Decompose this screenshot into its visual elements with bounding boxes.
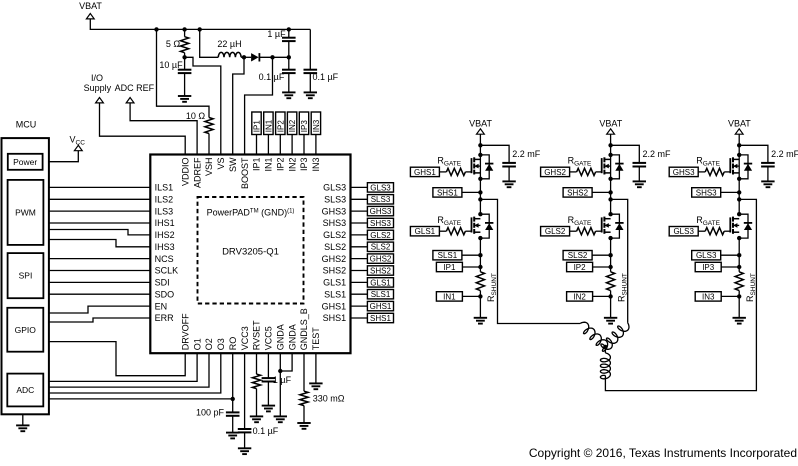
wire I/O supply to VDDIO pin — [100, 103, 186, 155]
svg-text:GHS2: GHS2 — [370, 255, 392, 264]
ground for 10uF — [178, 95, 191, 97]
svg-text:0.1 µF: 0.1 µF — [253, 426, 279, 436]
svg-text:GNDA: GNDA — [287, 324, 297, 350]
capacitor 2.2 mF bridge 2 — [611, 145, 640, 163]
svg-text:SW: SW — [228, 157, 238, 172]
svg-text:SHS1: SHS1 — [370, 314, 391, 323]
wire VBAT to half-bridge 2 — [610, 134, 612, 155]
svg-text:0.1 µF: 0.1 µF — [259, 72, 285, 82]
svg-text:SHS3: SHS3 — [696, 188, 717, 197]
svg-text:IN2: IN2 — [287, 158, 297, 172]
wire shunt to ground 3 — [738, 291, 740, 318]
svg-text:VBAT: VBAT — [469, 119, 492, 129]
PowerPAD dashed region — [198, 197, 304, 304]
transistor Q3L low-side FET — [729, 217, 731, 232]
capacitor 1 uF — [288, 29, 290, 37]
svg-text:Copyright © 2016, Texas Instru: Copyright © 2016, Texas Instruments Inco… — [529, 446, 797, 460]
svg-text:ADREF: ADREF — [192, 157, 202, 188]
wire VCC to MCU Power — [43, 151, 79, 162]
svg-text:Power: Power — [13, 157, 37, 167]
svg-text:IN1: IN1 — [443, 292, 456, 301]
node 5-ohm/10uF junction — [182, 55, 186, 59]
svg-text:O2: O2 — [204, 338, 214, 350]
net label GLS3 — [351, 186, 368, 188]
svg-text:IP1: IP1 — [443, 263, 456, 272]
wire diode cathode node — [259, 56, 288, 58]
op-amp U1 DRV3205-Q1 body — [150, 155, 350, 354]
wire shunt to ground 2 — [610, 291, 612, 318]
svg-text:IP2: IP2 — [276, 120, 285, 133]
net label IP2 (top) — [276, 112, 285, 135]
svg-text:VBAT: VBAT — [728, 119, 751, 129]
svg-text:SLS1: SLS1 — [438, 251, 458, 260]
net label GLS1 — [351, 281, 368, 283]
wire ILS3 — [49, 210, 150, 212]
svg-text:IN3: IN3 — [702, 292, 715, 301]
net label GLS3 — [669, 227, 698, 236]
net label IP3 — [695, 262, 721, 271]
net label IP1 — [436, 262, 462, 271]
net label GHS2 — [351, 258, 368, 260]
net label GHS1 — [410, 167, 439, 176]
motor winding L3 — [604, 347, 606, 353]
net label SHS1 — [351, 317, 368, 319]
transistor Q1L low-side FET — [471, 217, 473, 232]
wire IHS2 — [49, 230, 150, 235]
svg-text:IN1: IN1 — [264, 119, 273, 132]
svg-text:GHS3: GHS3 — [673, 168, 695, 177]
svg-text:IHS3: IHS3 — [155, 242, 175, 252]
capacitor 2.2 mF bridge 3 — [739, 145, 768, 163]
transistor Q1H high-side FET — [471, 158, 473, 173]
svg-text:SHS2: SHS2 — [370, 266, 391, 275]
capacitor 100 pF — [232, 399, 234, 413]
svg-text:GLS1: GLS1 — [415, 227, 436, 236]
svg-text:GHS3: GHS3 — [322, 206, 347, 216]
net label SHS3 — [692, 188, 721, 197]
wire ILS2 — [49, 198, 150, 200]
node cap tap 2 — [608, 143, 612, 147]
svg-text:NCS: NCS — [155, 254, 174, 264]
wire NCS — [49, 258, 150, 260]
node GNDA junction — [278, 369, 282, 373]
MCU SPI box — [8, 253, 44, 298]
svg-text:2.2 mF: 2.2 mF — [771, 149, 798, 159]
svg-text:10 µF: 10 µF — [159, 60, 183, 70]
wire SDI — [49, 281, 150, 283]
net label SHS2 — [351, 270, 368, 272]
svg-text:SLS3: SLS3 — [371, 195, 391, 204]
svg-text:GLS3: GLS3 — [323, 183, 346, 193]
ground bridge 2 — [604, 317, 617, 319]
svg-text:RO: RO — [228, 337, 238, 351]
svg-text:ILS3: ILS3 — [155, 206, 174, 216]
svg-text:SHS3: SHS3 — [323, 218, 347, 228]
ground for 0.1uF boost — [282, 91, 295, 93]
net label SLS1 — [351, 293, 368, 295]
net label SLS3 — [351, 198, 368, 200]
capacitor 0.1 uF boost — [288, 57, 290, 69]
wire BOOST tap to BOOST pin — [245, 57, 273, 154]
ground for VCC5 cap — [262, 405, 275, 407]
net label IN1 (top) — [264, 112, 273, 135]
node cap junction — [287, 55, 291, 59]
svg-text:330 mΩ: 330 mΩ — [313, 393, 345, 403]
resistor 330 mOhm — [303, 353, 305, 391]
svg-text:SLS2: SLS2 — [568, 251, 588, 260]
svg-text:IP3: IP3 — [702, 263, 715, 272]
wire phase tap 3 — [738, 192, 740, 214]
wire shunt to ground 1 — [479, 291, 481, 318]
net label GLS1 — [410, 227, 439, 236]
svg-text:RVSET: RVSET — [252, 320, 262, 350]
svg-text:SLS2: SLS2 — [324, 242, 346, 252]
svg-text:GLS1: GLS1 — [370, 278, 391, 287]
wire O1 route — [49, 353, 197, 381]
svg-text:O3: O3 — [216, 338, 226, 350]
svg-text:22 µH: 22 µH — [217, 39, 241, 49]
resistor 10 Ohm — [205, 118, 213, 134]
svg-text:ILS2: ILS2 — [155, 195, 174, 205]
wire ADC REF to ADREF pin — [130, 103, 197, 155]
capacitor 1 uF VCC5 — [267, 353, 269, 378]
svg-text:VSH: VSH — [204, 158, 214, 177]
svg-text:SHS1: SHS1 — [323, 313, 347, 323]
rail drain-source 3H — [738, 155, 740, 193]
wire phase 3 to motor — [605, 199, 756, 390]
resistor RVSET — [256, 353, 258, 374]
svg-text:SLS3: SLS3 — [324, 195, 346, 205]
wire SW node to SW pin — [233, 57, 244, 154]
net label SHS2 — [563, 188, 592, 197]
svg-text:IN3: IN3 — [312, 119, 321, 132]
svg-text:IHS1: IHS1 — [155, 218, 175, 228]
transistor Q3H high-side FET — [729, 158, 731, 173]
resistor R_SHUNT 1 — [476, 272, 484, 291]
wire DRVOFF route — [49, 342, 185, 376]
net label SLS3 — [692, 251, 721, 260]
resistor R_SHUNT 2 — [607, 272, 615, 291]
svg-text:IP2: IP2 — [574, 263, 587, 272]
svg-text:GLS2: GLS2 — [370, 231, 391, 240]
svg-text:5 Ω: 5 Ω — [166, 39, 181, 49]
ground for VCC3 cap — [238, 447, 251, 449]
svg-text:TEST: TEST — [311, 327, 321, 351]
rail below low FET 3 — [738, 238, 740, 272]
net label IP3 (top) — [299, 112, 308, 135]
svg-text:10 Ω: 10 Ω — [186, 111, 206, 121]
svg-text:1 µF: 1 µF — [267, 29, 286, 39]
wire 10-ohm to VSH pin — [208, 134, 210, 155]
MCU GPIO box — [7, 308, 43, 352]
node VBAT-rail junctions — [154, 27, 158, 31]
ground for TEST — [315, 353, 317, 383]
node motor star point — [603, 345, 607, 349]
motor winding L2 — [601, 323, 629, 349]
svg-text:I/O: I/O — [91, 73, 103, 83]
svg-text:VCC3: VCC3 — [240, 326, 250, 350]
inductor 22 uH — [218, 52, 241, 57]
transistor Q2L low-side FET — [601, 217, 603, 232]
svg-text:GHS2: GHS2 — [322, 254, 347, 264]
wire RO route — [232, 353, 234, 399]
svg-text:MCU: MCU — [16, 120, 37, 130]
svg-text:GLS2: GLS2 — [545, 227, 566, 236]
svg-text:GLS1: GLS1 — [323, 278, 346, 288]
net label SHS3 — [351, 222, 368, 224]
net label GHS2 — [541, 167, 570, 176]
capacitor 0.1 uF VCC3 — [244, 353, 246, 429]
wire VBAT to 10-ohm — [157, 29, 210, 117]
ground MCU — [22, 414, 24, 425]
svg-text:SDO: SDO — [155, 289, 175, 299]
net label SLS2 — [563, 251, 592, 260]
svg-text:VDDIO: VDDIO — [180, 158, 190, 187]
svg-text:1 µF: 1 µF — [273, 375, 292, 385]
net label IP2 — [567, 262, 593, 271]
svg-text:SHS1: SHS1 — [437, 188, 458, 197]
svg-text:PWM: PWM — [15, 207, 36, 217]
node cap tap 3 — [737, 143, 741, 147]
svg-text:GNDA: GNDA — [276, 324, 286, 350]
ground bridge 1 — [474, 317, 487, 319]
svg-text:SPI: SPI — [19, 271, 33, 281]
rail below low FET 1 — [479, 238, 481, 272]
ground for 2.2mF 3 — [761, 180, 774, 182]
ground for 2.2mF 2 — [633, 180, 646, 182]
svg-text:VCC5: VCC5 — [264, 326, 274, 350]
ground for GNDLS_B — [297, 422, 310, 424]
svg-text:SDI: SDI — [155, 278, 170, 288]
wire GNDA1 — [279, 353, 281, 416]
net label IN2 (top) — [287, 112, 296, 135]
ground for 0.1uF rail — [304, 91, 317, 93]
diode boost — [251, 53, 259, 61]
resistor 5 Ohm — [184, 29, 186, 36]
net label IP1 (top) — [252, 112, 261, 135]
capacitor 2.2 mF bridge 1 — [480, 145, 509, 163]
svg-text:SHS3: SHS3 — [370, 219, 391, 228]
MCU PWM box — [8, 180, 44, 245]
ground for GNDA — [274, 415, 287, 417]
svg-text:SLS1: SLS1 — [371, 290, 391, 299]
net label GLS2 — [541, 227, 570, 236]
wire GNDA2 — [280, 353, 292, 371]
motor winding L1 — [580, 322, 607, 351]
capacitor 0.1 uF rail — [309, 29, 311, 69]
wire VBAT to half-bridge 3 — [738, 134, 740, 155]
MCU Power box — [8, 154, 43, 170]
svg-text:DRVOFF: DRVOFF — [180, 313, 190, 350]
rail below low FET 2 — [610, 238, 612, 272]
svg-text:IP3: IP3 — [299, 158, 309, 172]
svg-text:GPIO: GPIO — [15, 325, 37, 335]
svg-text:SLS2: SLS2 — [371, 243, 391, 252]
svg-text:ADC: ADC — [16, 385, 34, 395]
svg-text:GLS3: GLS3 — [673, 227, 694, 236]
wire phase 1 to motor — [480, 199, 580, 323]
svg-text:IP1: IP1 — [252, 158, 262, 172]
wire junction to VS pin — [185, 57, 221, 154]
svg-text:EN: EN — [155, 301, 168, 311]
net label IN3 — [695, 292, 721, 301]
svg-text:GHS1: GHS1 — [322, 301, 347, 311]
wire EN — [49, 306, 150, 313]
rail drain-source 2H — [610, 155, 612, 193]
node BOOST tap — [270, 55, 274, 59]
svg-text:IN1: IN1 — [264, 158, 274, 172]
ground for RVSET — [250, 415, 263, 417]
node SW/diode junction — [242, 55, 246, 59]
svg-text:GLS3: GLS3 — [696, 251, 717, 260]
svg-text:GHS3: GHS3 — [370, 207, 392, 216]
wire VBAT rail — [90, 19, 310, 30]
resistor R_SHUNT 3 — [735, 272, 743, 291]
net label GHS3 — [351, 210, 368, 212]
svg-text:SHS2: SHS2 — [567, 188, 588, 197]
svg-text:ADC REF: ADC REF — [115, 83, 155, 93]
node RO junction — [231, 397, 235, 401]
wire SCLK — [49, 270, 150, 272]
svg-text:100 pF: 100 pF — [196, 407, 225, 417]
wire SDO — [49, 293, 150, 295]
wire VBAT to half-bridge 1 — [479, 134, 481, 155]
wire O2 route — [49, 353, 209, 387]
net label GLS2 — [351, 234, 368, 236]
net label GHS3 — [669, 167, 698, 176]
svg-text:VS: VS — [216, 158, 226, 170]
svg-text:IP1: IP1 — [253, 120, 262, 133]
svg-text:IP3: IP3 — [300, 120, 309, 133]
svg-text:VBAT: VBAT — [79, 1, 102, 11]
svg-text:SHS2: SHS2 — [323, 266, 347, 276]
svg-text:ERR: ERR — [155, 313, 175, 323]
svg-text:GLS3: GLS3 — [370, 183, 391, 192]
svg-text:O1: O1 — [192, 338, 202, 350]
svg-text:IN2: IN2 — [573, 292, 586, 301]
svg-text:SCLK: SCLK — [155, 266, 179, 276]
wire IHS1 — [49, 222, 150, 224]
node cap tap 1 — [478, 143, 482, 147]
wire ILS1 — [49, 186, 150, 188]
net label IN1 — [436, 292, 462, 301]
ground for 2.2mF 1 — [502, 180, 515, 182]
svg-text:2.2 mF: 2.2 mF — [643, 149, 672, 159]
wire phase tap 2 — [610, 192, 612, 214]
svg-text:GNDLS_B: GNDLS_B — [299, 308, 309, 350]
net label IN3 (top) — [311, 112, 320, 135]
net label SLS2 — [351, 246, 368, 248]
wire IHS3 — [49, 240, 150, 247]
net label IN2 — [567, 292, 593, 301]
svg-text:ILS1: ILS1 — [155, 183, 174, 193]
svg-text:2.2 mF: 2.2 mF — [512, 149, 541, 159]
wire ERR — [49, 318, 150, 322]
svg-text:Supply: Supply — [84, 83, 112, 93]
wire phase tap 1 — [479, 192, 481, 214]
capacitor 10 uF — [184, 57, 186, 69]
ground bridge 3 — [733, 317, 746, 319]
svg-text:GHS2: GHS2 — [544, 168, 566, 177]
svg-text:SLS1: SLS1 — [324, 289, 346, 299]
transistor Q2H high-side FET — [601, 158, 603, 173]
svg-text:GHS1: GHS1 — [370, 302, 392, 311]
svg-text:IN2: IN2 — [288, 119, 297, 132]
wire inductor to switch node — [241, 56, 251, 58]
wire rail to inductor — [200, 29, 219, 57]
svg-text:IHS2: IHS2 — [155, 230, 175, 240]
wire O3 route — [49, 353, 221, 393]
net label SLS1 — [433, 251, 462, 260]
svg-text:0.1 µF: 0.1 µF — [312, 72, 338, 82]
svg-text:IP2: IP2 — [276, 158, 286, 172]
svg-text:VBAT: VBAT — [599, 119, 622, 129]
svg-text:BOOST: BOOST — [240, 157, 250, 189]
svg-text:IN3: IN3 — [311, 158, 321, 172]
MCU ADC box — [7, 374, 43, 407]
rail drain-source 1H — [479, 155, 481, 193]
svg-text:DRV3205-Q1: DRV3205-Q1 — [222, 247, 279, 258]
wire phase 2 to motor — [611, 199, 628, 323]
svg-text:GLS2: GLS2 — [323, 230, 346, 240]
ground for 100pF — [226, 432, 239, 434]
svg-text:GHS1: GHS1 — [414, 168, 436, 177]
net label GHS1 — [351, 305, 368, 307]
net label SHS1 — [433, 188, 462, 197]
